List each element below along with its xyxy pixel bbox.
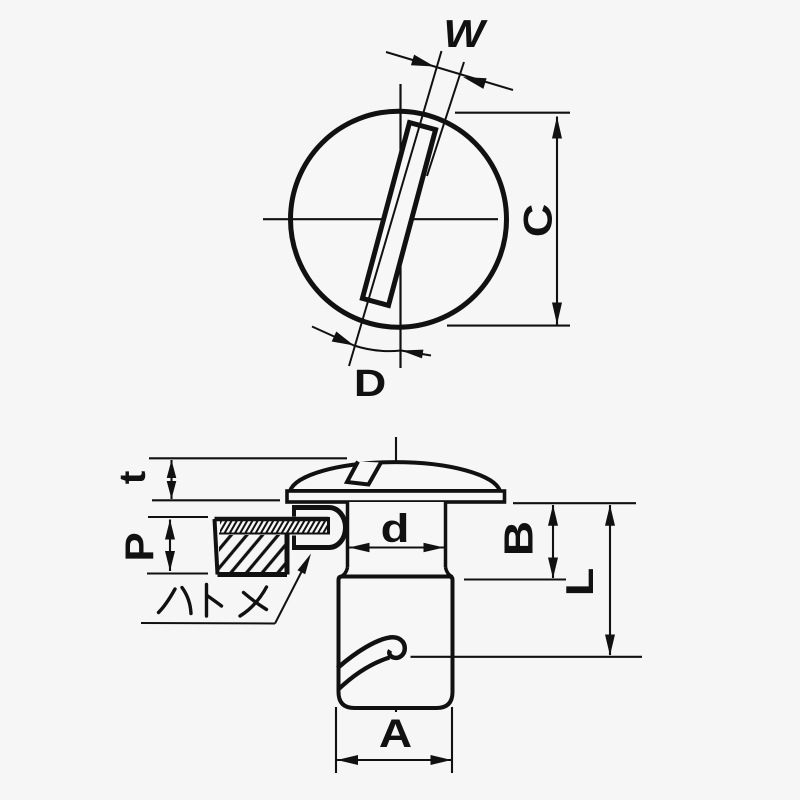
svg-text:P: P: [117, 532, 162, 561]
svg-text:L: L: [559, 568, 602, 597]
svg-text:D: D: [354, 361, 386, 404]
svg-text:t: t: [113, 471, 154, 485]
svg-text:A: A: [379, 712, 412, 757]
svg-text:W: W: [443, 12, 488, 55]
svg-text:B: B: [495, 521, 541, 557]
svg-text:d: d: [381, 506, 410, 551]
svg-text:C: C: [516, 204, 560, 238]
